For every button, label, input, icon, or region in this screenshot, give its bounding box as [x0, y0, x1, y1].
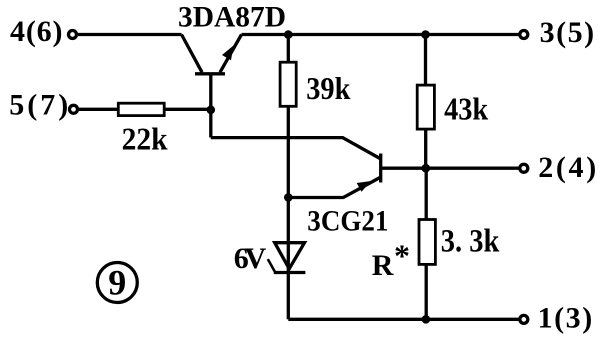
terminal 1(3)	[520, 301, 592, 334]
svg-text:1(3): 1(3)	[538, 301, 593, 334]
svg-text:22k: 22k	[122, 121, 168, 157]
terminal 3(5)	[520, 16, 594, 49]
svg-text:3CG21: 3CG21	[307, 205, 388, 238]
wire 3.3k to bottom rail	[425, 264, 428, 319]
resistor R 43k	[417, 85, 434, 129]
terminal 4(6)	[10, 15, 77, 48]
transistor Q1 3DA87D	[182, 35, 242, 74]
svg-text:*: *	[394, 238, 410, 274]
top rail wire from Q1 emitter to terminal 3(5)	[242, 33, 521, 36]
resistor R* 3.3k	[419, 220, 435, 265]
wire Q2 emitter to node	[288, 196, 344, 199]
label R*	[372, 238, 410, 283]
node Q2 base / 43k / 3.3k	[422, 164, 431, 173]
resistor R 22k	[118, 103, 164, 115]
node bottom rail / 3.3k	[422, 315, 431, 324]
svg-text:39k: 39k	[306, 70, 350, 106]
terminal 2(4)	[520, 151, 596, 184]
wire terminal 5(7) to resistor 22k	[79, 108, 119, 111]
svg-text:4(6): 4(6)	[10, 15, 63, 48]
svg-text:3(5): 3(5)	[540, 16, 595, 49]
resistor R 39k	[280, 62, 296, 106]
wire Q2 base node to 3.3k	[425, 168, 428, 219]
wire 43k to Q2 base node	[424, 129, 427, 168]
wire resistor 22k to Q1 base node	[164, 108, 211, 111]
wire from terminal 4(6) to Q1 collector	[78, 33, 182, 36]
svg-text:3. 3k: 3. 3k	[441, 224, 500, 260]
svg-text:9: 9	[108, 263, 126, 303]
wire Q1 base to Q2 collector	[211, 138, 380, 159]
svg-text:3DA87D: 3DA87D	[178, 1, 286, 34]
svg-text:6V: 6V	[234, 242, 267, 275]
wire Q2 base to terminal 2(4)	[381, 167, 520, 170]
wire 39k to emitter node and zener	[287, 106, 290, 319]
node top rail / 43k	[421, 30, 430, 39]
figure number 9 (circled)	[97, 263, 137, 303]
node Q1 base / 22k junction	[207, 106, 216, 115]
node 39k / Q2 emitter	[284, 193, 293, 202]
zener diode 6V	[268, 243, 306, 273]
transistor Q2 3CG21	[343, 154, 381, 198]
wire top rail to 39k	[287, 35, 290, 63]
svg-text:R: R	[372, 249, 394, 282]
wire top rail to 43k	[424, 35, 427, 86]
svg-text:43k: 43k	[444, 91, 488, 127]
terminal 5(7)	[9, 89, 77, 122]
bottom rail wire from zener to terminal 1(3)	[288, 318, 520, 321]
wire Q1 base lead down	[209, 74, 212, 138]
node top rail / 39k	[284, 30, 293, 39]
